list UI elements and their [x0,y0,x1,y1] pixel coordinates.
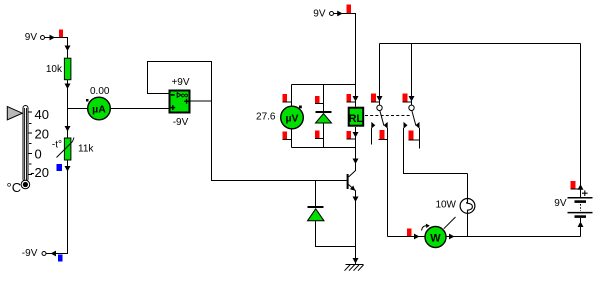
wire coil bottom to collector [355,127,357,171]
terminal 9V top-middle [313,5,351,20]
op-amp U1 [170,77,190,128]
diode D1 base clamp [308,181,356,247]
thermometer pointer triangle [7,107,22,120]
ammeter polarity dot [86,99,89,102]
ground [345,265,364,271]
thermistor RT1 11k [52,138,94,161]
svg-text:W: W [430,233,441,245]
diode D2 branch [316,85,332,148]
current arrow [409,96,415,102]
resistor R1 10k [46,58,71,79]
current arrow after wattmeter [449,234,455,240]
common wire [379,44,381,106]
transistor Q1 [347,170,356,191]
red bar voltmeter top [283,94,292,102]
current arrow into wattmeter [414,234,420,240]
needle line [444,217,456,229]
blue voltage bar below thermistor [57,164,63,171]
red bar battery [571,181,576,189]
terminal 9V top-left [25,30,63,44]
feedback wire loop [148,62,212,102]
blade [412,111,416,126]
current arrow down [65,46,71,52]
plates [568,197,593,199]
wire op-amp output down to transistor base [212,101,347,181]
thermometer tube [23,106,28,182]
red bar sw2 common [403,94,408,102]
voltmeter M2 [281,106,304,129]
top rail to battery [380,43,581,45]
right contact [384,122,388,129]
svg-text:-t°: -t° [52,140,62,151]
pivot [377,105,382,110]
thermometer minor ticks [29,124,32,165]
triangle mark [177,93,181,98]
right contact [416,122,420,129]
wire thermistor to -9V [46,160,68,254]
svg-text:9V: 9V [25,32,38,43]
thermometer mercury lines [24,108,26,181]
svg-text:+9V: +9V [171,77,189,88]
common wire [411,44,413,106]
relay coil RL [348,108,363,126]
current arrow up into + [578,184,584,190]
thermometer bulb [21,180,30,189]
current arrow below rail [353,159,359,165]
wire 9V to resistor [50,38,68,59]
svg-text:10k: 10k [46,64,63,75]
left contact [371,122,375,129]
blade [380,111,384,126]
plus mark [582,190,588,196]
svg-text:°C: °C [7,180,22,195]
red bar sw2 contact [409,131,414,140]
svg-text:11k: 11k [78,144,94,155]
svg-text:9V: 9V [554,198,567,209]
current arrow [377,96,383,102]
svg-text:µA: µA [92,104,106,116]
svg-text:∞: ∞ [181,89,189,101]
svg-text:-9V: -9V [22,248,38,259]
wire junction to ammeter [68,108,89,110]
red bar sw1 common [371,94,376,102]
minus input mark [171,94,175,96]
red bar voltmeter bottom [283,132,292,140]
plus input mark [170,105,175,110]
ammeter M1 [88,97,111,120]
current arrow at coil bottom [353,132,359,138]
voltmeter polarity dot [299,106,302,109]
svg-text:27.6: 27.6 [256,111,276,122]
wire ammeter to op-amp input [110,108,169,110]
left contact [404,122,408,129]
svg-text:20: 20 [35,127,49,142]
current arrow down [65,126,71,132]
svg-text:RL: RL [348,113,363,125]
current arrow down into coil [353,96,359,102]
current arrow down [65,166,71,172]
svg-text:0: 0 [35,146,42,161]
svg-text:0.00: 0.00 [90,86,110,97]
svg-text:9V: 9V [313,8,326,19]
top rail of parallel block [292,84,356,86]
red bar at coil top [347,94,356,102]
bottom wire [388,236,581,238]
thermometer display [7,106,49,196]
relay switch SW1 [371,44,388,237]
wire resistor to junction [67,80,69,137]
terminal -9V bottom-left [22,248,63,262]
wattmeter M3 [422,217,456,248]
svg-text:-20: -20 [30,165,49,180]
current arrow down [65,84,71,90]
wire emitter to ground [355,191,357,265]
voltmeter M2 branch wires [291,85,293,108]
red bar at wattmeter [407,229,412,237]
current arrow up at battery bottom [578,222,584,228]
red bar sw1 contact [380,130,385,139]
thermometer major ticks [29,112,33,175]
svg-text:µV: µV [285,113,298,125]
relay switch SW2 [403,44,468,174]
current arrow above ground [353,258,359,264]
red bar coil bottom [347,131,356,139]
svg-text:10W: 10W [435,199,456,210]
relay link dashed line [365,115,410,117]
red bar diode top [315,96,324,104]
svg-text:-9V: -9V [173,117,189,128]
svg-text:40: 40 [35,107,49,122]
plus output mark [184,99,189,104]
red voltage bar at 9V terminal [59,30,63,38]
red bar diode bottom [315,131,324,139]
red voltage bar at middle 9V terminal [347,5,352,14]
blue voltage bar at -9V terminal [58,255,63,262]
lamp L1 10W [435,174,474,237]
wire 9V down to relay coil [338,14,356,107]
bottom rail of parallel block [292,147,356,149]
pivot [409,105,414,110]
battery B1 9V [554,44,592,237]
curved adjust arrow [422,226,428,231]
current arrow emitter [353,197,359,203]
